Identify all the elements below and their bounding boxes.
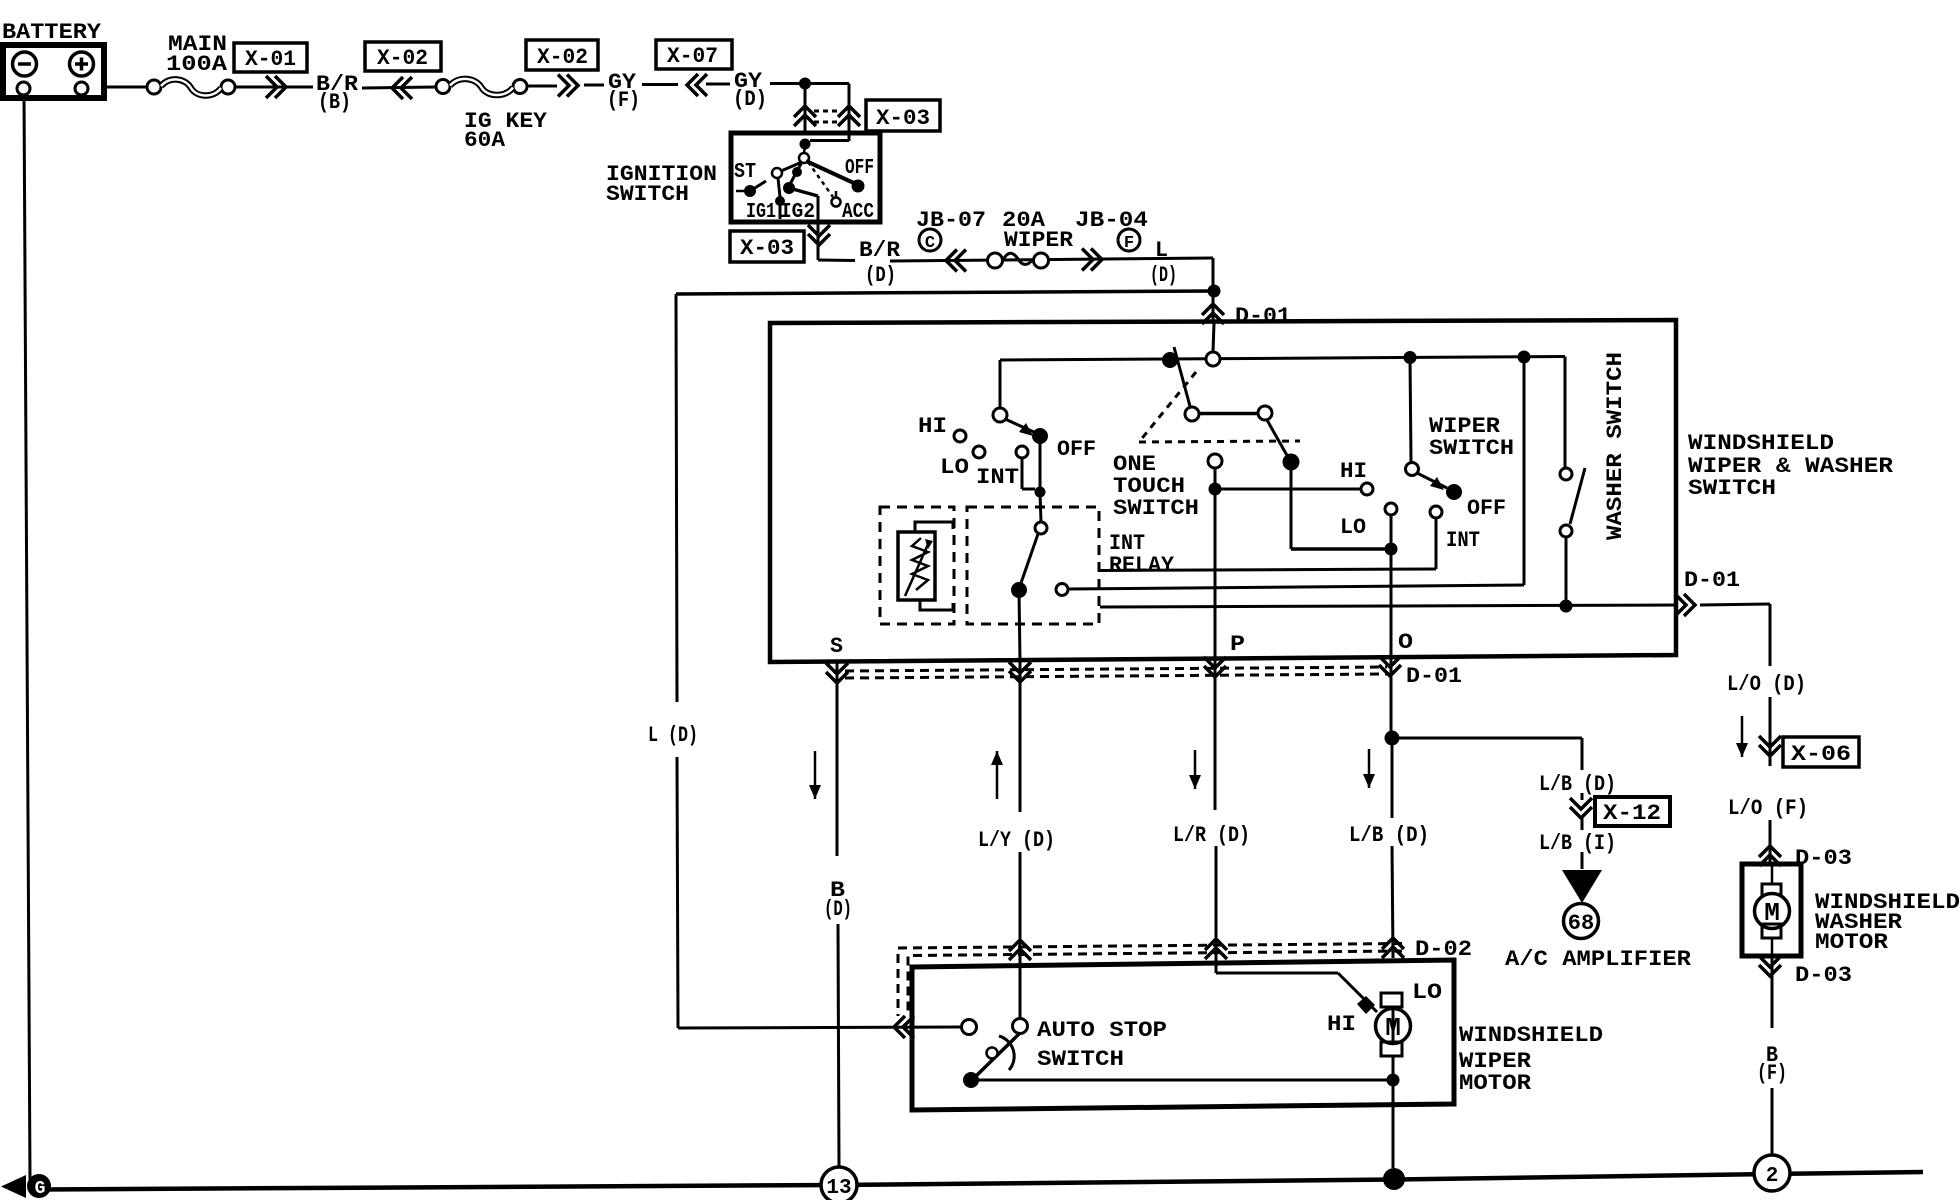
svg-text:X-02: X-02 bbox=[377, 46, 428, 71]
svg-text:(D): (D) bbox=[733, 87, 767, 112]
svg-text:WIPER: WIPER bbox=[1004, 228, 1074, 253]
svg-text:D-03: D-03 bbox=[1795, 846, 1852, 871]
svg-text:(F): (F) bbox=[607, 88, 640, 113]
svg-text:IG2: IG2 bbox=[780, 201, 815, 224]
svg-text:WASHER SWITCH: WASHER SWITCH bbox=[1603, 352, 1628, 540]
svg-text:X-06: X-06 bbox=[1791, 742, 1851, 767]
svg-text:INT: INT bbox=[976, 465, 1019, 490]
svg-text:X-03: X-03 bbox=[740, 236, 794, 261]
svg-text:SWITCH: SWITCH bbox=[1113, 496, 1199, 521]
svg-text:68: 68 bbox=[1568, 911, 1594, 936]
svg-text:HI: HI bbox=[918, 414, 947, 439]
svg-text:SWITCH: SWITCH bbox=[606, 182, 689, 207]
svg-text:F: F bbox=[1124, 234, 1134, 253]
svg-text:L/B (I): L/B (I) bbox=[1539, 831, 1616, 856]
svg-text:BATTERY: BATTERY bbox=[2, 20, 102, 45]
svg-text:C: C bbox=[925, 234, 935, 253]
svg-text:WINDSHIELD: WINDSHIELD bbox=[1459, 1023, 1603, 1048]
svg-text:13: 13 bbox=[826, 1177, 851, 1200]
svg-text:SWITCH: SWITCH bbox=[1429, 436, 1514, 461]
svg-text:P: P bbox=[1230, 632, 1245, 657]
svg-text:D-01: D-01 bbox=[1684, 568, 1740, 593]
svg-text:(D): (D) bbox=[865, 263, 896, 288]
svg-text:L (D): L (D) bbox=[648, 723, 698, 748]
svg-text:INT: INT bbox=[1446, 528, 1480, 553]
svg-text:HI: HI bbox=[1340, 459, 1367, 484]
svg-text:D-01: D-01 bbox=[1406, 664, 1462, 689]
svg-text:A/C AMPLIFIER: A/C AMPLIFIER bbox=[1505, 947, 1692, 972]
svg-text:O: O bbox=[1398, 630, 1413, 655]
svg-text:L/O (F): L/O (F) bbox=[1728, 796, 1808, 821]
svg-text:L/B (D): L/B (D) bbox=[1539, 772, 1616, 797]
svg-text:MOTOR: MOTOR bbox=[1815, 930, 1889, 955]
svg-text:ST: ST bbox=[734, 161, 756, 184]
svg-text:L/Y (D): L/Y (D) bbox=[978, 828, 1055, 853]
svg-text:SWITCH: SWITCH bbox=[1688, 476, 1776, 501]
svg-text:D-01: D-01 bbox=[1235, 304, 1291, 329]
svg-text:X-03: X-03 bbox=[876, 106, 930, 131]
svg-text:S: S bbox=[830, 634, 843, 659]
svg-text:WINDSHIELD: WINDSHIELD bbox=[1688, 431, 1834, 456]
svg-text:X-12: X-12 bbox=[1603, 801, 1661, 826]
svg-text:JB-04: JB-04 bbox=[1075, 208, 1148, 233]
svg-text:D-03: D-03 bbox=[1795, 963, 1852, 988]
svg-text:(B): (B) bbox=[318, 90, 351, 115]
svg-text:SWITCH: SWITCH bbox=[1037, 1047, 1124, 1072]
svg-text:OFF: OFF bbox=[1057, 437, 1096, 462]
svg-text:OFF: OFF bbox=[845, 157, 874, 180]
svg-text:L/B (D): L/B (D) bbox=[1349, 823, 1429, 848]
svg-text:LO: LO bbox=[1412, 980, 1442, 1005]
svg-text:X-01: X-01 bbox=[245, 47, 296, 72]
svg-text:MOTOR: MOTOR bbox=[1459, 1071, 1532, 1096]
svg-text:X-07: X-07 bbox=[667, 44, 718, 69]
svg-text:X-02: X-02 bbox=[537, 45, 588, 70]
svg-text:AUTO STOP: AUTO STOP bbox=[1037, 1018, 1167, 1043]
svg-text:60A: 60A bbox=[464, 128, 506, 153]
svg-text:(D): (D) bbox=[824, 897, 852, 922]
svg-text:OFF: OFF bbox=[1467, 496, 1506, 521]
svg-text:RELAY: RELAY bbox=[1109, 553, 1175, 578]
svg-text:L/O (D): L/O (D) bbox=[1727, 672, 1806, 697]
svg-text:L: L bbox=[1155, 238, 1168, 263]
svg-text:LO: LO bbox=[1340, 515, 1366, 540]
svg-text:100A: 100A bbox=[166, 52, 228, 77]
svg-text:2: 2 bbox=[1766, 1165, 1779, 1188]
svg-text:B/R: B/R bbox=[859, 238, 901, 263]
svg-text:HI: HI bbox=[1327, 1012, 1356, 1037]
svg-text:IG1: IG1 bbox=[746, 201, 776, 224]
svg-text:(D): (D) bbox=[1150, 263, 1177, 288]
svg-text:ACC: ACC bbox=[842, 201, 874, 224]
svg-text:G: G bbox=[35, 1179, 46, 1199]
svg-text:(F): (F) bbox=[1757, 1061, 1787, 1086]
svg-text:LO: LO bbox=[940, 455, 969, 480]
svg-text:L/R (D): L/R (D) bbox=[1173, 823, 1250, 848]
